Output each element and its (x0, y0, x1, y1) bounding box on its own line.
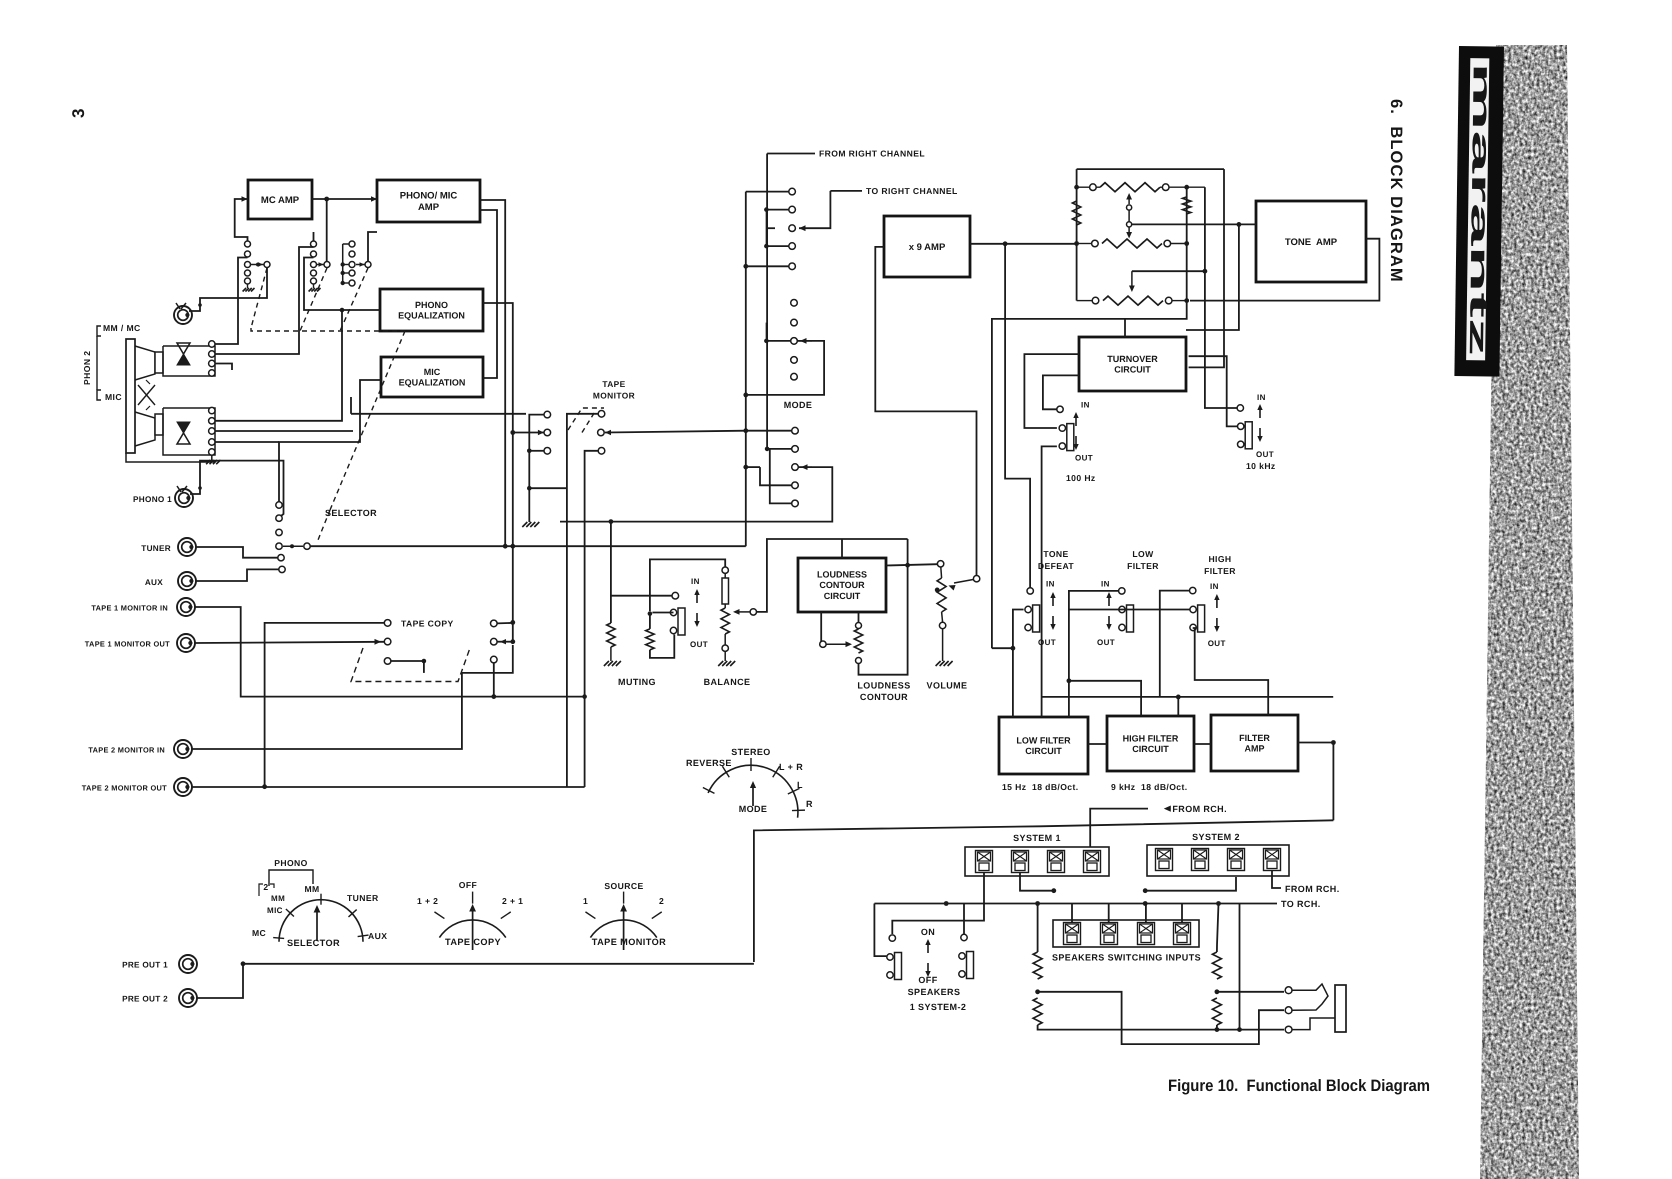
svg-text:2 + 1: 2 + 1 (502, 896, 523, 906)
MM cartridge contact pins (209, 341, 215, 347)
jack TUNER input (178, 538, 196, 556)
block PHONO EQUALIZATION U3 (380, 289, 483, 331)
wire TO RCH left end down to switch (874, 904, 886, 957)
volume ground (942, 629, 944, 661)
wire hf switch bottom to filter amp top (1193, 628, 1269, 715)
svg-text:TAPE 1 MONITOR OUT: TAPE 1 MONITOR OUT (85, 640, 170, 649)
svg-text:AUX: AUX (145, 578, 163, 587)
block HIGH FILTER CIRCUIT U10 (1107, 716, 1194, 771)
row3 rail (1077, 300, 1093, 302)
horizontal bus above filter boxes (1042, 696, 1334, 698)
wire resistor3 tap to headphone (1217, 991, 1284, 993)
wire AUX to selector contact (196, 569, 279, 581)
balance top element (722, 578, 729, 604)
vertical from x9 output down to tone defeat (1005, 244, 1030, 588)
svg-text:CONTOUR: CONTOUR (860, 692, 908, 702)
svg-text:TAPE: TAPE (602, 379, 625, 389)
svg-text:SYSTEM 1: SYSTEM 1 (1013, 833, 1061, 843)
high filter pushbutton (1190, 605, 1205, 632)
wire balance wiper up to loudness feed line (757, 539, 908, 612)
svg-text:FILTER: FILTER (1239, 733, 1270, 743)
wire feed line down to loudness output node (907, 539, 909, 565)
system2 speaker icons (1156, 849, 1173, 871)
loudness pot top contact (856, 623, 862, 629)
tone pot row3 resistor (1103, 296, 1163, 305)
wire TO RCH vertical right (1239, 904, 1241, 1030)
svg-text:IN: IN (1081, 401, 1090, 410)
wire grounded column to L contacts (529, 415, 544, 522)
loudness wiper contact (820, 641, 826, 647)
dots row1 (1074, 185, 1079, 190)
selector gang A arm contact (264, 262, 270, 268)
svg-text:Figure 10. Functional Block D: Figure 10. Functional Block Diagram (1168, 1077, 1430, 1095)
tone network left vertical (1076, 169, 1078, 301)
selector dial pointer (316, 911, 318, 941)
wire mic cartridge pin3 to selector column (215, 441, 279, 443)
svg-text:SPEAKERS SWITCHING INPUTS: SPEAKERS SWITCHING INPUTS (1052, 953, 1201, 963)
svg-text:MIC: MIC (105, 392, 122, 402)
wire muting dot to switch top contact (652, 612, 673, 614)
svg-text:R: R (806, 799, 813, 809)
wire mic cartridge pin1 to phono eq feed (215, 312, 342, 421)
svg-text:PHONO 1: PHONO 1 (133, 495, 172, 504)
svg-text:TAPE MONITOR: TAPE MONITOR (592, 937, 666, 947)
svg-text:AUX: AUX (368, 931, 387, 941)
selector gang C contacts (349, 241, 355, 247)
wire system2 icon stubs (1145, 877, 1164, 891)
balance top contact (722, 567, 728, 573)
muting contact circle (672, 592, 679, 599)
ground below mic cartridge (211, 455, 213, 460)
loudness output to volume top (886, 564, 937, 565)
high filter upper switch wire (1130, 605, 1193, 607)
svg-text:VOLUME: VOLUME (927, 681, 968, 691)
tone pot1 wiper arrow up (1128, 196, 1130, 204)
wire phono eq feed down from gang B (304, 258, 380, 311)
svg-text:OFF: OFF (459, 880, 477, 890)
MM cartridge housing (135, 346, 155, 380)
MIC cartridge housing (135, 412, 155, 446)
selector gang A arm link (251, 264, 264, 266)
wire right top contact to trunk (497, 622, 513, 625)
muting resistor R-mute2 (646, 629, 654, 650)
wire sys1 icon2 riser to right switch (1019, 891, 1021, 904)
wire right lower contact down to bus (493, 663, 495, 697)
turnover top pin from trunk line (1124, 319, 1126, 337)
dot on phono2 wire (198, 303, 202, 307)
hook from system2 icon to FROM RCH (1272, 871, 1281, 888)
svg-text:MONITOR: MONITOR (593, 391, 635, 401)
tape copy left lower contact (384, 658, 391, 665)
wire preout long horizontal (243, 963, 754, 965)
tape monitor pointer (623, 910, 625, 950)
wire phono2 jack to gang A arm (189, 268, 267, 311)
wire x9 amp input from volume wiper (875, 247, 976, 575)
svg-text:CIRCUIT: CIRCUIT (1132, 744, 1169, 754)
tone defeat pushbutton (1025, 605, 1040, 632)
tone pot row2 resistor (1102, 239, 1162, 248)
wire bottom rail to left trunk (992, 301, 1187, 649)
wire hf switch top to left bus (1069, 609, 1190, 611)
wire system1 icon stubs down (984, 873, 1017, 891)
wire junction down to gang B arm (326, 199, 328, 262)
selector gang C arm contact (365, 262, 371, 268)
svg-text:L + R: L + R (779, 762, 803, 772)
vertical from bus down to T2MO end (584, 697, 586, 787)
speaker line resistor 4 (1212, 998, 1221, 1025)
svg-text:DEFEAT: DEFEAT (1038, 561, 1074, 571)
loudness pot loop to volume node (859, 566, 908, 675)
svg-text:FROM RCH.: FROM RCH. (1285, 884, 1340, 894)
svg-text:x 9 AMP: x 9 AMP (909, 242, 946, 253)
wire trunk from mode loop down to muting (610, 522, 612, 623)
muting resistor R-mute1 (607, 623, 615, 647)
tone pot3 wiper elbow (1132, 270, 1205, 272)
svg-text:PRE OUT 1: PRE OUT 1 (122, 961, 168, 970)
dashed selector coupling long (251, 328, 405, 331)
dashed selector coupling to gang B (300, 268, 327, 331)
mode dial arc (708, 765, 798, 817)
wire tone amp output loop (1190, 239, 1379, 301)
tone network top rail (1077, 168, 1224, 170)
svg-text:CIRCUIT: CIRCUIT (824, 591, 861, 601)
block x9 AMP U5 (884, 216, 970, 277)
SYSTEM 2 enclosure (1147, 845, 1289, 876)
mode middle loop to arrow (797, 340, 812, 342)
svg-text:2: 2 (263, 882, 268, 892)
wire MIC EQ right to PHONO/MIC AMP (480, 210, 497, 378)
tape monitor ticks (585, 912, 595, 919)
crossing link between cartridges (138, 385, 155, 405)
wire x9 amp output to tone network (970, 243, 1077, 245)
svg-text:TUNER: TUNER (141, 544, 171, 553)
cartridge frame wire (126, 453, 215, 462)
loudness pot resistor (854, 629, 862, 653)
svg-text:PRE OUT 2: PRE OUT 2 (122, 995, 168, 1004)
jack PRE OUT 1 (179, 955, 197, 973)
block PHONO/MIC AMP U2 (377, 180, 480, 222)
arrow into MC AMP (242, 196, 248, 201)
wire from right channel leader (767, 153, 815, 155)
svg-text:TAPE 2 MONITOR OUT: TAPE 2 MONITOR OUT (82, 784, 167, 793)
mode upper contacts (789, 188, 796, 195)
wire selector arm output to mode bus (311, 545, 746, 547)
block TURNOVER CIRCUIT U7 (1079, 337, 1186, 391)
selector rotary arm contact (304, 543, 310, 549)
wire MC AMP input loop (235, 199, 248, 241)
svg-text:OUT: OUT (1256, 450, 1274, 459)
block TONE AMP U6 (1256, 201, 1366, 282)
svg-text:LOW: LOW (1132, 549, 1154, 559)
svg-text:MC: MC (252, 928, 266, 938)
mode middle contacts (791, 300, 798, 307)
svg-text:OFF: OFF (918, 975, 937, 985)
hook symbol on phono 1 jack (177, 486, 181, 492)
svg-text:MUTING: MUTING (618, 677, 656, 687)
dashed tape copy coupling parallelogram (351, 648, 470, 682)
ground muting 1 (610, 647, 612, 661)
volume wiper (935, 588, 940, 593)
svg-text:FROM RCH.: FROM RCH. (1172, 804, 1227, 814)
balance ground (724, 651, 726, 661)
svg-text:TAPE 2 MONITOR IN: TAPE 2 MONITOR IN (88, 746, 165, 755)
svg-text:ON: ON (921, 927, 935, 937)
SYSTEM 1 enclosure (965, 847, 1109, 876)
loudness pot bottom contact (856, 658, 862, 664)
balance wiper arrow (750, 609, 756, 615)
svg-text:FILTER: FILTER (1127, 561, 1159, 571)
svg-text:PHONO: PHONO (274, 858, 308, 868)
svg-text:PHON 2: PHON 2 (82, 351, 92, 385)
arrow to right channel into mode contact (799, 191, 830, 228)
dashed tape monitor coupling (568, 408, 604, 430)
svg-text:MM: MM (304, 884, 319, 894)
tone defeat wires (1013, 610, 1024, 718)
selector gang C bus (342, 244, 344, 283)
block MC AMP U1 (248, 180, 312, 219)
wire selector vertical feed (279, 380, 381, 502)
tape copy left mid contact with arrow from T1MO (384, 638, 391, 645)
svg-text:HIGH: HIGH (1208, 554, 1231, 564)
svg-text:IN: IN (691, 577, 700, 586)
wire between high filter and filter amp (1194, 743, 1211, 745)
svg-text:LOUDNESS: LOUDNESS (817, 570, 867, 580)
selector dial ticks (273, 937, 284, 940)
svg-text:PHONO/ MIC: PHONO/ MIC (400, 191, 458, 202)
svg-text:CIRCUIT: CIRCUIT (1025, 746, 1062, 756)
junction dot tone defeat node (991, 647, 993, 649)
svg-text:SELECTOR: SELECTOR (287, 938, 340, 948)
headphone jack symbol (1335, 985, 1346, 1032)
svg-text:TONE AMP: TONE AMP (1285, 237, 1338, 248)
tape copy pointer (472, 910, 474, 950)
balance bottom contact (722, 645, 728, 651)
marantz logo black block (1454, 46, 1504, 377)
speaker resistor mid tap wire (1038, 992, 1284, 1044)
svg-text:LOUDNESS: LOUDNESS (857, 681, 910, 691)
selector arm link (283, 545, 303, 547)
selector dial arc (279, 900, 363, 942)
svg-text:EQUALIZATION: EQUALIZATION (399, 378, 466, 388)
row2 rail stubs (1077, 243, 1092, 245)
riser bus into high filter circuit top (1177, 697, 1179, 716)
svg-text:SELECTOR: SELECTOR (325, 508, 377, 518)
junction preout (241, 961, 246, 966)
tone network left resistor R-left (1072, 201, 1080, 225)
stub middle arm (766, 340, 790, 342)
svg-text:PHONO: PHONO (415, 300, 448, 310)
svg-text:SPEAKERS: SPEAKERS (908, 987, 961, 997)
svg-text:HIGH FILTER: HIGH FILTER (1123, 733, 1179, 743)
riser dot column into low filter circuit top (1068, 681, 1070, 717)
speakers switch right pushbutton (961, 934, 967, 940)
wire turnover right pin to 10kHz bracket (1189, 356, 1238, 426)
wire mode bus to tape monitor R arm with arrow (605, 431, 746, 433)
balance resistor (721, 608, 729, 634)
wire 100Hz out down to filter bus (1042, 446, 1057, 717)
svg-text:AMP: AMP (1245, 744, 1265, 754)
MIC cartridge transducer hourglass (177, 422, 190, 433)
wire TUNER to selector contact (196, 547, 278, 558)
svg-text:TONE: TONE (1043, 549, 1068, 559)
wire gang C arm to PHONO/MIC AMP lower input (368, 232, 377, 262)
jack TAPE 1 MONITOR IN (177, 598, 195, 616)
svg-text:OUT: OUT (690, 640, 708, 649)
svg-text:MIC: MIC (424, 367, 441, 377)
tone pot2 wiper arrow down (1128, 227, 1130, 235)
jack TAPE 2 MONITOR OUT (174, 778, 192, 796)
wiper small circles (1127, 205, 1132, 210)
svg-text:FROM RIGHT CHANNEL: FROM RIGHT CHANNEL (819, 149, 925, 159)
hook symbol on phono 2 jack (176, 303, 180, 309)
wire T2MI to tape copy arm (192, 645, 513, 749)
mode upper left bus (745, 192, 747, 395)
svg-text:1 + 2: 1 + 2 (417, 896, 438, 906)
block FILTER AMP U11 (1211, 715, 1298, 771)
svg-text:CIRCUIT: CIRCUIT (1114, 365, 1151, 375)
svg-text:CONTOUR: CONTOUR (819, 580, 865, 590)
wire T2MO riser to R top contact (567, 414, 598, 787)
svg-text:BALANCE: BALANCE (704, 677, 751, 687)
loudness pot feed from box (858, 612, 860, 622)
svg-text:OUT: OUT (1208, 639, 1226, 648)
bracket joining MM/MC and MIC (96, 336, 98, 390)
bottom bus wire (1038, 1025, 1284, 1030)
branch at 488 (529, 487, 567, 489)
wire gang A contact to cartridge MM pin (215, 258, 248, 345)
wires switching inputs up to TO RCH bus (1038, 904, 1072, 923)
high filter IN wire (1160, 591, 1190, 697)
selector gang B arm contact (324, 262, 330, 268)
svg-text:TUNER: TUNER (347, 893, 379, 903)
svg-text:SYSTEM 2: SYSTEM 2 (1192, 832, 1240, 842)
svg-text:AMP: AMP (418, 202, 440, 213)
tone network right resistor (1183, 197, 1191, 214)
row1 rail extension to right loop (1187, 186, 1205, 188)
svg-text:OUT: OUT (1075, 454, 1093, 463)
svg-text:IN: IN (1257, 393, 1266, 402)
svg-text:EQUALIZATION: EQUALIZATION (398, 311, 465, 321)
loudness wiper arrow (826, 643, 848, 645)
wire tone rail right end down to turnover right pin (1189, 169, 1224, 367)
wire turnover left upper to 100Hz switch (1024, 354, 1079, 428)
tone pot row1 resistor (1100, 183, 1160, 192)
wire MC AMP output to PHONO/MIC AMP (312, 198, 377, 200)
from-right-channel vertical trunk (766, 154, 768, 449)
wire right switch top feed to bus (963, 904, 965, 935)
wire R bottom contact down to bus (585, 451, 598, 697)
svg-text:9 kHz 18 dB/Oct.: 9 kHz 18 dB/Oct. (1111, 782, 1188, 792)
wire to right channel leader (830, 190, 862, 192)
svg-text:marantz: marantz (1464, 62, 1496, 356)
dot on phono eq output (496, 302, 498, 304)
svg-text:MODE: MODE (784, 400, 813, 410)
svg-text:TAPE COPY: TAPE COPY (401, 619, 454, 629)
svg-text:IN: IN (1046, 580, 1055, 589)
wire trunk B arrow feed into tape monitor L arm (510, 430, 515, 435)
wire gang B top contact up (313, 232, 315, 241)
speaker line resistor 2 (1033, 998, 1042, 1025)
svg-text:LOW FILTER: LOW FILTER (1016, 735, 1071, 745)
selector gang B contacts (311, 241, 317, 247)
wire feed into ground column from eq area (351, 412, 529, 414)
jack PRE OUT 2 (179, 989, 197, 1007)
svg-text:MM: MM (271, 894, 285, 903)
tone network right vertical (1186, 187, 1188, 300)
tape monitor gang R contacts (598, 411, 605, 418)
selector gang B arm link (317, 264, 324, 266)
balance top loop wire (650, 559, 725, 611)
muting top wire (611, 595, 672, 597)
svg-text:1 SYSTEM-2: 1 SYSTEM-2 (910, 1002, 967, 1012)
dashed selector coupling to gang C (340, 268, 368, 331)
svg-text:TURNOVER: TURNOVER (1107, 354, 1158, 364)
switching input speaker icons (1064, 923, 1081, 945)
svg-text:6. BLOCK DIAGRAM: 6. BLOCK DIAGRAM (1387, 99, 1405, 283)
switch 10 kHz pushbutton (1237, 405, 1243, 411)
svg-text:TAPE 1 MONITOR IN: TAPE 1 MONITOR IN (91, 604, 168, 613)
wire turnover left lower elbow (1043, 375, 1079, 409)
arrowhead FROM RCH (1164, 806, 1171, 812)
wire wiper node to tone amp input (1132, 223, 1256, 225)
muting second branch (649, 614, 651, 629)
tone pot row3 contacts (1092, 297, 1099, 304)
svg-text:10 kHz: 10 kHz (1246, 461, 1276, 471)
junction trunk B on selector line (510, 544, 515, 549)
svg-text:SOURCE: SOURCE (604, 881, 643, 891)
mode dial pointer arrow (752, 786, 754, 806)
wire lower contact elbow (391, 660, 424, 662)
jack TAPE 1 MONITOR OUT (177, 634, 195, 652)
wire mic cartridge pin2 stub wire (215, 430, 353, 432)
block LOUDNESS CONTOUR CIRCUIT U8 (798, 558, 886, 612)
jack AUX input (178, 572, 196, 590)
svg-text:MM / MC: MM / MC (103, 323, 141, 333)
wire between low and high filter boxes (1088, 743, 1107, 745)
svg-text:MC AMP: MC AMP (261, 195, 300, 206)
wire bus to high filter circuit top (1069, 681, 1141, 716)
tone pot row1 contacts (1090, 184, 1097, 191)
selector rotary contacts (276, 502, 282, 508)
loudness bottom left pin wire (820, 612, 822, 644)
svg-text:STEREO: STEREO (731, 747, 770, 757)
tape monitor gang L contacts (544, 411, 551, 418)
wire cartridge MM pin 2 long wire right (215, 247, 314, 354)
wire TO RCH bus (874, 903, 1277, 905)
wire filter amp output (1298, 742, 1333, 744)
svg-text:IN: IN (1101, 580, 1110, 589)
speaker line resistor 3 (1212, 952, 1221, 979)
wire loudness box top feed drop (841, 539, 843, 558)
wire T1MI riser and lower bus (195, 607, 585, 697)
wire T2MO long line (192, 786, 585, 788)
switch 100 Hz pushbutton (1057, 406, 1063, 412)
tape monitor dial arc (590, 920, 656, 938)
wire T1MO to tape copy (195, 642, 384, 643)
jack PHONO 2 MM input (174, 306, 192, 324)
wire tone trunk to low filter box (992, 647, 1013, 649)
ground of tape monitor column (522, 522, 527, 527)
speaker line resistor 1 (1033, 952, 1042, 979)
junction on T2MO (262, 784, 267, 789)
wire system1 icon1 to speaker switch (892, 873, 984, 934)
tape copy right contacts (491, 620, 498, 627)
svg-text:TO RCH.: TO RCH. (1281, 899, 1321, 909)
selector gang A contacts (245, 241, 251, 247)
high filter IN contact (1190, 587, 1196, 593)
arrow into right mid contact (497, 641, 513, 643)
svg-text:FILTER: FILTER (1204, 566, 1236, 576)
